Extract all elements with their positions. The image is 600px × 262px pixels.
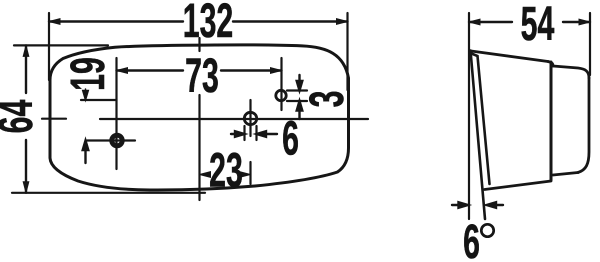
horizontal centerline of lamp — [42, 118, 368, 121]
svg-text:3: 3 — [301, 91, 354, 108]
dim 64 arrow bottom — [23, 182, 29, 193]
dim 64 arrow top — [23, 45, 29, 56]
svg-text:73: 73 — [185, 50, 219, 103]
dim 23 extension line right — [249, 162, 251, 184]
side-view top edge — [471, 51, 548, 62]
hole center tangent tick left — [243, 126, 245, 140]
hole top-right tangent tick upper — [287, 89, 307, 91]
svg-text:6: 6 — [282, 113, 299, 166]
dim 64 extension line top — [14, 44, 108, 46]
dim 132 extension line left — [48, 13, 50, 80]
side-view back top edge — [553, 66, 589, 78]
hole top-right tangent tick lower — [287, 100, 307, 102]
dim 3 arrow lower (points up) — [297, 101, 303, 119]
svg-text:64: 64 — [0, 99, 43, 133]
dim 19 arrow lower (points up) — [83, 141, 89, 164]
side-view lens bottom edge — [485, 181, 552, 190]
dim 132 extension line right — [346, 13, 348, 90]
mounting hole center vertical axis — [249, 100, 251, 136]
dim 6deg arrow right (points left) — [487, 202, 504, 208]
side-view step at lens joint — [548, 62, 553, 67]
dim 6deg arrow left (points right) — [452, 202, 468, 208]
dim 73 arrow right — [271, 68, 282, 74]
svg-text:6: 6 — [463, 216, 480, 262]
dim 19 arrow upper (points down) — [83, 89, 89, 100]
dim 23 arrow right — [240, 172, 251, 178]
hole center tangent tick right — [255, 126, 257, 140]
mounting hole center — [244, 112, 256, 124]
mounting hole top-right vertical axis — [280, 58, 282, 110]
dim 54 extension line right — [589, 13, 591, 75]
dim 3 arrow upper (points down) — [297, 75, 303, 91]
svg-text:23: 23 — [209, 145, 243, 198]
dim 64 extension line bottom — [12, 192, 205, 194]
dim 19 upper bound line — [81, 99, 117, 101]
mounting hole left vertical axis — [115, 58, 117, 169]
side-view lens inner slant line — [472, 54, 490, 185]
svg-text:132: 132 — [183, 0, 233, 48]
dim 6 arrow left (points right) — [231, 131, 245, 137]
dim 73 arrow left — [117, 68, 128, 74]
dim 132 dimension line — [49, 20, 348, 22]
dim 132 arrow right — [337, 19, 348, 25]
dim 64 dimension line — [25, 45, 27, 192]
dim 132 arrow left — [49, 19, 60, 25]
mounting hole top-right — [276, 90, 286, 100]
vertical centerline of lamp — [198, 38, 200, 200]
svg-text:54: 54 — [521, 0, 555, 51]
dim 54 arrow right — [579, 19, 590, 25]
dim 6 arrow right (points left) — [257, 131, 278, 137]
side-view vertical reference line — [468, 13, 470, 219]
dim 54 dimension line — [469, 21, 590, 23]
side-view back bottom edge — [553, 173, 578, 176]
dim 6deg degree circle — [481, 224, 493, 236]
svg-text:19: 19 — [62, 57, 115, 91]
side-view lens front face (slanted 6°) — [471, 51, 486, 220]
dim 23 arrow left — [200, 172, 211, 178]
side-view lens joint vertical line — [550, 62, 553, 180]
dim 73 dimension line — [117, 69, 282, 71]
mounting hole left — [112, 135, 123, 146]
dim 54 arrow left — [469, 19, 480, 25]
side-view back right edge — [578, 78, 589, 173]
mounting hole left horizontal axis — [87, 139, 135, 141]
lamp front-view outline — [50, 45, 349, 190]
